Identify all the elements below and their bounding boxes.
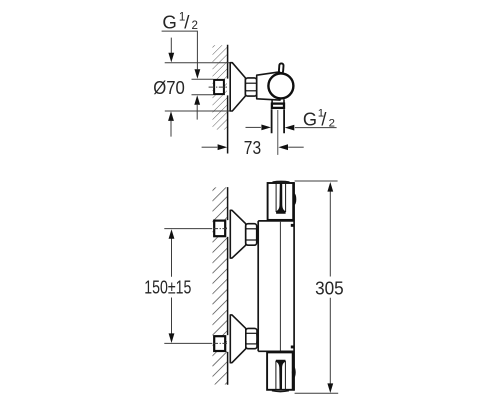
black mark above bottom knob — [291, 346, 294, 349]
svg-text:2: 2 — [192, 19, 198, 32]
square nut front bottom — [214, 336, 225, 351]
outlet ring nut (top view) — [272, 104, 284, 108]
label G 1/2 (top) — [162, 11, 198, 33]
escutcheon front bottom — [230, 315, 246, 363]
svg-text:73: 73 — [244, 138, 261, 158]
bottom knob groove — [276, 361, 286, 390]
wall hatching (top view) — [213, 45, 228, 129]
extension line G1/2 nut top — [192, 78, 214, 80]
top knob grip ellipse — [293, 194, 297, 205]
escutcheon (top view) — [230, 63, 245, 111]
wall hatching (front view) — [213, 187, 228, 384]
dimension 305 — [329, 191, 331, 384]
black mark below top knob — [291, 224, 294, 227]
outlet shoulder (top view) — [272, 99, 284, 102]
svg-text:305: 305 — [315, 278, 344, 299]
square nut front top — [214, 221, 225, 237]
extension line G1/2 nut bottom — [192, 94, 214, 96]
thermostat knob circle (top view) — [268, 73, 293, 98]
top knob groove — [276, 183, 286, 212]
G1/2 leader (top) — [162, 31, 198, 69]
dimension 73 left arrow — [202, 146, 218, 148]
G1/2 lower arrow — [196, 105, 198, 120]
extension line 305 bottom — [295, 392, 339, 394]
extension line 305 top — [295, 180, 338, 182]
body highlight line — [279, 222, 281, 351]
dimension Ø70 top arrow — [170, 38, 172, 53]
dimension 150±15 — [171, 239, 173, 334]
hex union nut front top — [246, 224, 257, 246]
svg-text:G: G — [303, 110, 317, 130]
mixer body (front view) — [258, 221, 294, 351]
wall face line (top view) — [227, 45, 229, 154]
pipe centerline extension — [277, 110, 279, 155]
extension line 150 bottom — [164, 342, 212, 344]
svg-text:G: G — [162, 11, 176, 32]
bottom knob (front view) — [272, 390, 289, 393]
hex union nut (top view) — [245, 78, 256, 96]
svg-text:Ø70: Ø70 — [153, 77, 185, 98]
bottom knob grip ellipse — [292, 367, 296, 378]
wall face line (front view) — [227, 187, 229, 385]
hex union nut front bottom — [246, 328, 257, 348]
extension line 150 top — [164, 228, 212, 230]
G1/2 pipe left arrow — [246, 126, 261, 128]
svg-text:150±15: 150±15 — [144, 277, 191, 297]
temperature lever (top view) — [279, 63, 284, 73]
label G 1/2 (pipe) — [303, 108, 335, 130]
valve body (top view) — [257, 72, 280, 100]
square nut (top view) — [214, 80, 224, 94]
escutcheon front top — [230, 210, 245, 258]
extension line Ø70 bottom — [165, 110, 232, 112]
shower pipe (top view) — [272, 109, 285, 133]
extension line Ø70 top — [165, 62, 232, 64]
dimension 73 right arrow — [288, 146, 304, 148]
top knob (front view) — [273, 180, 290, 183]
G1/2 pipe right arrow with underline — [295, 127, 337, 129]
centerline (top view) — [209, 86, 227, 88]
svg-text:2: 2 — [329, 117, 335, 129]
svg-text:/: / — [184, 11, 190, 32]
dimension Ø70 bottom arrow — [170, 121, 172, 137]
